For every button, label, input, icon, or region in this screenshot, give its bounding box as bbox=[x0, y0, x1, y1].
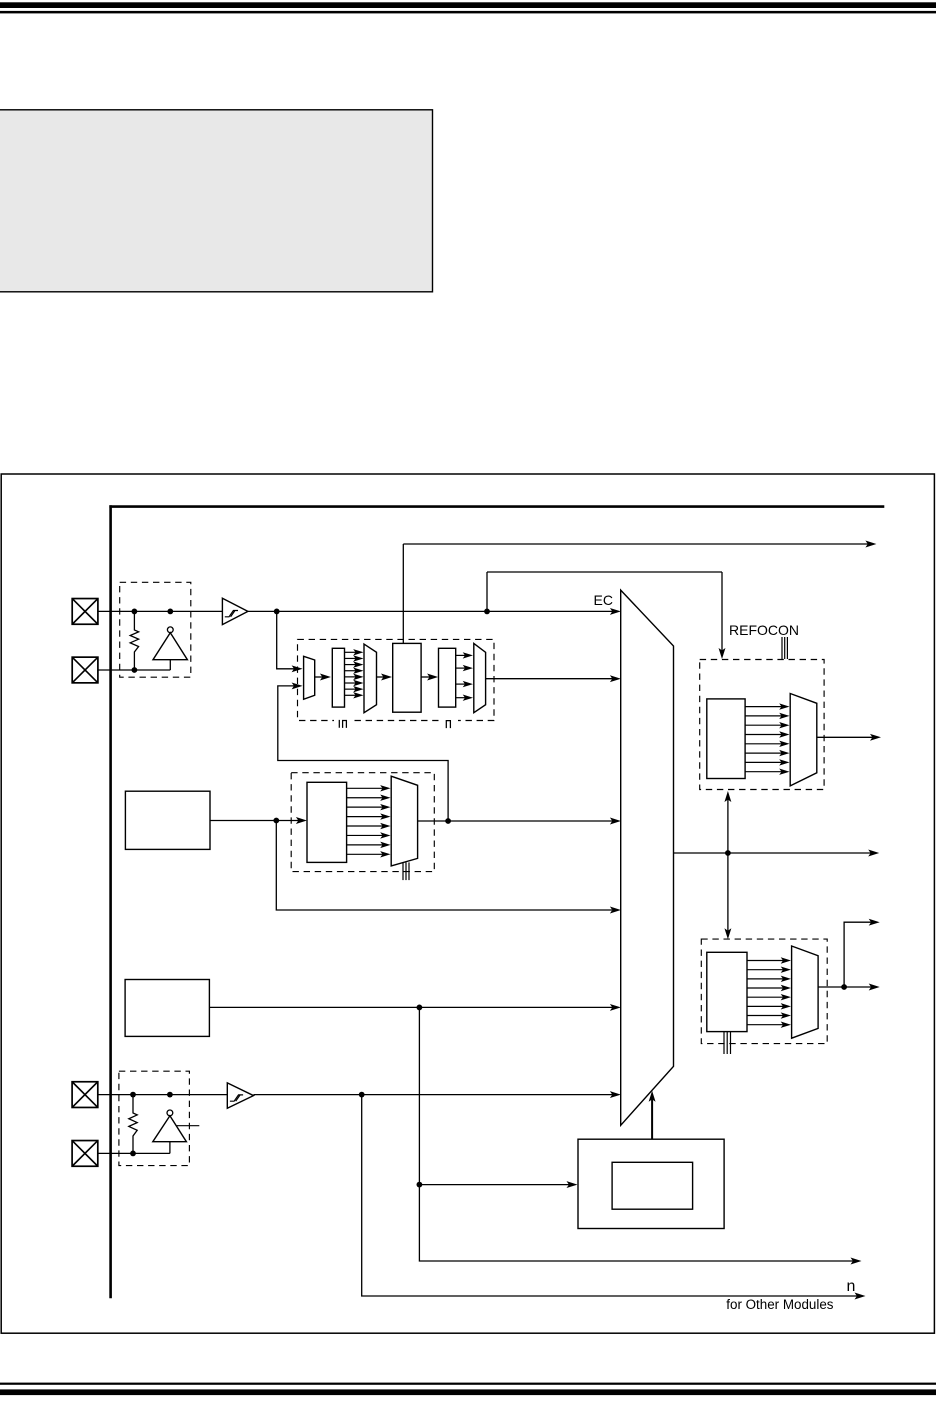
bus: 8 divide ratios to divider mux bbox=[345, 649, 364, 698]
bus ticks: REFOCON control bbox=[782, 637, 787, 659]
wire: POSC clock to system mux input 1 bbox=[248, 608, 621, 615]
PLL input select mux bbox=[304, 656, 315, 699]
wire: FRCDIV output up and into PLL input mux bbox=[278, 686, 448, 821]
junction: OSC1/inverter input bbox=[167, 609, 173, 615]
svg-text:for Other Modules: for Other Modules bbox=[726, 1297, 833, 1312]
feedback resistor (primary osc) bbox=[130, 611, 138, 670]
junction: LPRC to FSCM input bbox=[417, 1182, 423, 1188]
wire: SOSC tap down to Other Modules bbox=[362, 1095, 858, 1296]
wire: OSC2 to inverter output bbox=[98, 669, 170, 671]
header thick rule bbox=[0, 2, 936, 8]
inverter (primary oscillator driver) bbox=[153, 627, 187, 670]
reference clock divider 1 dashed enclosure bbox=[700, 660, 824, 790]
wire: mux to PLL input divider bbox=[315, 674, 331, 681]
wire: REFO2 clock out (arrow right) bbox=[818, 984, 880, 991]
wire: divided ref into PLL bbox=[377, 674, 393, 681]
junction: SOSCO/inverter input bbox=[167, 1092, 173, 1098]
wire: vertical tap from POSC line bbox=[486, 572, 488, 611]
bus ticks: FRCDIV select bbox=[403, 862, 409, 880]
header thin rule bbox=[0, 11, 936, 14]
bus: 4 divide ratios to output mux bbox=[456, 652, 473, 701]
wire: FSCM switch request up into mux bbox=[649, 1091, 656, 1139]
wire: system clock down into REFO2 bbox=[724, 853, 731, 939]
wire: OSC1 to Schmitt buffer bbox=[98, 610, 222, 612]
REFO2 output mux bbox=[792, 946, 819, 1038]
junction: system clock to REFO blocks bbox=[725, 850, 731, 856]
FRC divider mux bbox=[391, 776, 417, 866]
primary oscillator dashed enclosure bbox=[120, 582, 191, 677]
bus: 8 taps to REFO1 mux bbox=[745, 703, 789, 775]
wire: buffer output tap toward REFOCON mux bbox=[487, 571, 722, 573]
junction: LPRC output bbox=[417, 1005, 423, 1011]
wire: PLL clock to system mux input 2 bbox=[486, 675, 621, 682]
junction: FRCDIV output to PLL path bbox=[445, 818, 451, 824]
wire: LPRC clock to system mux input 5 bbox=[209, 1004, 621, 1011]
footer thin rule bbox=[0, 1383, 936, 1385]
wire: LPRC down to FSCM and power-up timer bbox=[419, 1007, 853, 1261]
Schmitt buffer (secondary clock input) bbox=[227, 1083, 253, 1108]
FSCM inner block bbox=[612, 1162, 693, 1209]
pad SOSCO bbox=[72, 1082, 98, 1108]
wire: SOSCO to Schmitt buffer bbox=[98, 1094, 228, 1096]
PLL output divider register bbox=[439, 648, 456, 707]
REFO1 divider register bbox=[707, 699, 745, 779]
wire: PLL out to output divider bbox=[421, 674, 438, 681]
svg-text:REFOCON: REFOCON bbox=[729, 622, 799, 638]
junction: POSC tap to REFO select path bbox=[484, 609, 490, 615]
bus ticks: REFO2 select bbox=[724, 1032, 731, 1054]
wire: FRC direct to system mux input 4 bbox=[276, 821, 612, 911]
wire: REFOCON select down into REFO1 box bbox=[719, 572, 726, 659]
device boundary thick line (vertical) bbox=[109, 505, 112, 1298]
svg-text:EC: EC bbox=[594, 592, 613, 608]
PLL core block bbox=[393, 643, 421, 712]
REFO1 output mux bbox=[790, 694, 817, 786]
wire: REFO2 tap up and out (arrow right) bbox=[844, 922, 872, 987]
junction: OSC1/resistor bbox=[132, 609, 138, 615]
junction: SOSC output tap bbox=[359, 1092, 365, 1098]
junction: REFO2 output tap bbox=[841, 984, 847, 990]
REFO2 divider register bbox=[707, 952, 747, 1031]
junction: SOSCI/resistor bbox=[130, 1151, 136, 1157]
bus: 8 tap selects to FRCDIV mux bbox=[347, 785, 391, 857]
svg-text:n: n bbox=[847, 1278, 856, 1295]
wire: system clock up into REFO1 bbox=[724, 791, 731, 853]
PLL module dashed enclosure bbox=[298, 639, 495, 720]
junction: OSC2/resistor bbox=[132, 667, 138, 673]
FSCM outer block bbox=[578, 1139, 724, 1228]
wire: system clock output (arrow right) bbox=[674, 850, 880, 857]
pad SOSCI bbox=[72, 1141, 98, 1167]
FRC oscillator block bbox=[125, 791, 210, 849]
pad OSC1 bbox=[72, 599, 98, 625]
FRC postscaler dashed enclosure bbox=[291, 773, 434, 872]
wire: SOSCI to inverter output bbox=[98, 1152, 170, 1154]
PLL input divider register bbox=[332, 648, 344, 707]
figure outer frame bbox=[1, 474, 934, 1333]
value label fragment "lΠ" under PLL input divider bbox=[339, 720, 346, 728]
inverter (secondary oscillator driver) bbox=[153, 1110, 200, 1153]
wire: SOSC clock to system mux input 6 bbox=[254, 1091, 621, 1098]
wire: FRC to FRC divider bbox=[210, 817, 307, 824]
wire: LPRC into FSCM bbox=[419, 1181, 577, 1188]
PLL output divider mux bbox=[474, 643, 486, 712]
pad OSC2 bbox=[72, 657, 98, 683]
wire: POSC down into PLL input mux bbox=[277, 611, 294, 668]
system clock select mux bbox=[621, 590, 674, 1125]
bus: 8 taps to REFO2 mux bbox=[747, 957, 791, 1028]
feedback resistor (secondary osc) bbox=[129, 1095, 137, 1154]
wire: FRCDIV clock to system mux input 3 bbox=[418, 818, 621, 825]
secondary oscillator dashed enclosure bbox=[119, 1071, 189, 1165]
note box (grey) bbox=[0, 110, 433, 292]
footer thick rule bbox=[0, 1389, 936, 1395]
wire: REFO1 clock out (arrow right) bbox=[817, 734, 881, 741]
junction: FRC output bbox=[273, 818, 279, 824]
device boundary thick line (horizontal) bbox=[109, 505, 884, 508]
junction: SOSCO/resistor bbox=[130, 1092, 136, 1098]
wire: PLL output tap to system (arrow right) bbox=[403, 541, 876, 548]
wire: vertical from PLL block top to tap bbox=[402, 544, 404, 643]
FRC divider register bbox=[307, 782, 347, 862]
Schmitt buffer (primary clock input) bbox=[222, 598, 248, 624]
PLL input divider mux bbox=[364, 644, 377, 713]
LPRC oscillator block bbox=[125, 980, 209, 1037]
junction: POSC to PLL input mux bbox=[274, 609, 280, 615]
reference clock divider 2 dashed enclosure bbox=[701, 939, 827, 1044]
value label fragment "Π" under PLL output divider bbox=[446, 721, 450, 729]
